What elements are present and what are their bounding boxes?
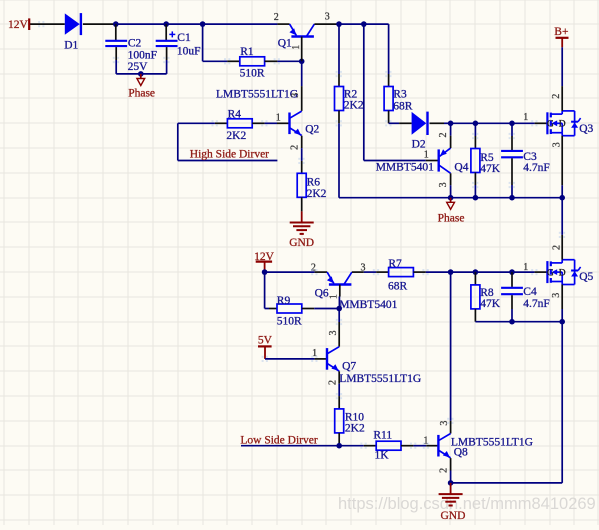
svg-text:5V: 5V [258,335,273,347]
svg-text:GND: GND [289,237,314,249]
resistor R3 [384,87,393,111]
hotspot markers at pin transitions [38,21,565,449]
svg-text:4.7nF: 4.7nF [523,298,550,310]
pin 3 label Q3 rotated [552,142,563,147]
label R2 [344,88,364,111]
wire R2 top feed [338,24,340,86]
wire top rail C2 to Q1 emitter [116,23,290,25]
wire Q4 collector down [450,173,452,197]
label LMBT5551LT1G Q7 [339,373,421,385]
wire R3 top feed [388,24,390,86]
wire R2 bottom down to Phase rail [338,111,340,198]
svg-text:LMBT5551LT1G: LMBT5551LT1G [339,373,421,385]
svg-text:10uF: 10uF [177,45,201,57]
wire 12V to Q6 emitter [265,271,328,273]
power port Phase (upper) [128,74,155,100]
capacitor C2 [105,24,127,74]
svg-text:Q3: Q3 [579,123,593,135]
node D1/C2 junction [113,21,119,27]
resistor R6 [297,173,306,197]
wire R9 to Q6 base node [302,308,339,310]
label C1 values [177,32,201,57]
node Q6 base / R9 junction [336,306,342,312]
wire Q7 emitter to R10 [338,371,340,409]
svg-text:2: 2 [290,145,301,150]
svg-text:LMBT5551LT1G: LMBT5551LT1G [451,437,533,449]
resistor R8 [471,285,480,309]
wire R5 feed [474,123,476,148]
label Q3 [579,123,593,135]
svg-text:R7: R7 [388,258,402,270]
pin 2 label Q3 rotated [551,94,562,99]
pin name G Q5 [547,269,554,279]
svg-text:2K2: 2K2 [226,130,246,142]
pin 1 label Q6 rotated [328,294,339,299]
svg-text:https://blog.csdn.net/mmm84102: https://blog.csdn.net/mmm8410269 [338,495,596,513]
wire Q8 emitter to GND rail [450,458,452,483]
power port 5V [258,335,273,359]
label Q5 [579,271,593,283]
resistor R5 [471,149,480,173]
svg-text:510R: 510R [277,316,302,328]
svg-text:4.7nF: 4.7nF [523,162,550,174]
pin 2 label Q5 rotated [552,245,563,250]
svg-text:2: 2 [311,263,316,274]
svg-text:3: 3 [438,182,449,187]
wire R8 top feed [474,272,476,285]
resistor R9 [277,304,302,313]
node 12V mid junction [262,269,268,275]
wire gate rail to Q3 [451,122,547,124]
node Q4 branch junction [361,21,367,27]
svg-text:1: 1 [523,262,528,273]
svg-text:D1: D1 [64,40,78,52]
node Q5 source bottom junction [559,319,565,325]
power port 12V (top left) [8,18,29,31]
wire right drop to GND rail [451,322,563,483]
wire R1 branch down and across [203,24,240,61]
svg-text:D: D [559,269,566,279]
pin 3 label Q4 rotated [438,182,449,187]
wire R4 to Q2 base [252,122,289,124]
label Q4 [454,162,468,174]
plus mark C1 [169,31,175,37]
wire Q6 collector to R7 [352,271,389,273]
label Q2 [305,124,319,136]
svg-text:LMBT5551LT1G: LMBT5551LT1G [216,89,298,101]
svg-text:2: 2 [327,380,338,385]
svg-text:68R: 68R [388,281,408,293]
label Q7 [342,361,356,373]
label R10 [345,412,365,435]
label R6 [307,177,327,200]
svg-text:47K: 47K [480,163,501,175]
label R11 [373,430,392,462]
svg-text:C2: C2 [128,37,142,49]
svg-text:B+: B+ [554,26,568,38]
pin 3 label Q7 rotated [328,331,339,336]
svg-text:2K2: 2K2 [307,188,327,200]
svg-text:3: 3 [290,93,301,98]
svg-text:GND: GND [441,510,466,522]
label R3 [393,88,413,112]
pin 3 label Q6 [361,263,366,274]
label R8 [480,287,501,310]
ground GND (upper) [289,211,314,249]
power port 12V (mid left) [254,251,275,272]
resistor R4 [227,119,252,128]
pin 1 label Q8 [423,436,428,447]
node R10 bottom junction [336,443,342,449]
wire Q5 source down [561,285,563,322]
transistor Q4 PNP [439,148,451,173]
wire Q5 drain up to Phase rail [561,198,563,260]
wire R1 to Q1 base node [265,60,302,62]
wire Q2 emitter to R6 [301,136,303,174]
label LMBT5551LT1G Q8 [451,437,533,449]
ground GND (bottom) [439,483,466,522]
label R4 [226,108,246,142]
svg-text:High Side Dirver: High Side Dirver [190,149,269,161]
node R5 bottom junction [473,195,479,201]
svg-text:Q4: Q4 [454,162,468,174]
wire Q4 base branch [364,24,439,160]
wire D1 cathode to node [83,23,116,25]
resistor R10 [335,409,344,433]
label R7 [388,258,408,293]
node R8 top junction [473,269,479,275]
svg-text:2: 2 [274,12,279,23]
pin 2 label Q2 rotated [290,145,301,150]
svg-text:3: 3 [328,331,339,336]
mosfet Q3 [547,111,580,136]
transistor Q7 NPN [327,347,339,371]
wire R11 to Q8 base [401,445,438,447]
svg-text:2: 2 [438,468,449,473]
svg-text:1: 1 [523,112,528,123]
svg-text:Phase: Phase [438,213,465,225]
capacitor C4 [501,272,523,322]
node Q3 source junction [559,195,565,201]
label C3 [523,151,550,174]
wire Q8 collector drop [450,272,452,433]
svg-text:D: D [559,120,566,130]
wire Q6 base down [338,285,340,309]
wire Q1 base down to Q2 collector [301,37,303,111]
svg-text:R8: R8 [480,287,494,299]
svg-text:R3: R3 [393,88,407,100]
svg-text:R9: R9 [277,295,291,307]
resistor R11 [376,441,401,450]
label C4 [523,286,550,310]
svg-text:1K: 1K [375,450,390,462]
svg-text:12V: 12V [8,19,29,31]
svg-text:R11: R11 [373,430,392,442]
transistor Q8 NPN [438,434,450,458]
node Q8 collector junction [448,269,454,275]
wire low side rail [241,445,376,447]
svg-text:R4: R4 [228,108,242,120]
transistor Q1 PNP [289,24,314,36]
label D2 [412,138,426,150]
pin name D Q5 [559,269,566,279]
wire node down to Q7 collector [338,309,340,347]
pin 1 label Q7 [312,348,317,359]
wire R8 bottom [474,309,476,322]
wire R5 bottom [474,173,476,198]
label R1 [240,46,265,79]
svg-text:Phase: Phase [128,88,155,100]
pin 3 label Q1 [325,12,330,23]
svg-text:2: 2 [552,245,563,250]
pin 2 label Q1 [274,12,279,23]
pin 3 label Q8 rotated [439,421,450,426]
svg-text:Q7: Q7 [342,361,356,373]
node C3 top junction [509,121,515,127]
pin 2 label Q6 [311,263,316,274]
svg-text:2: 2 [438,133,449,138]
pin 2 label Q7 rotated [327,380,338,385]
svg-text:R5: R5 [480,152,494,164]
node C4 bottom junction [509,319,515,325]
label Q6 [315,288,329,300]
diode D1 [65,13,81,35]
power port B+ [554,26,568,47]
power port Phase (mid) [438,198,465,225]
wire Phase rail [339,197,562,199]
node Q1 base / R1 junction [299,59,305,65]
wire Q1 collector across top [314,23,388,25]
mosfet Q5 [547,260,580,285]
svg-text:3: 3 [552,142,563,147]
svg-text:MMBT5401: MMBT5401 [339,299,397,311]
wire R3 bottom to D2 anode [389,111,412,124]
resistor R1 [240,57,265,66]
svg-text:C3: C3 [523,151,537,163]
label Q8 [454,446,468,458]
label MMBT5401 Q6 [339,299,397,311]
svg-text:1: 1 [423,436,428,447]
label R5 [480,152,501,175]
svg-text:1: 1 [276,113,281,124]
wire R7 to lower gate rail [413,271,546,273]
svg-text:2K2: 2K2 [344,99,364,111]
svg-text:R6: R6 [307,177,321,189]
label LMBT5551LT1G Q2 [216,89,298,101]
svg-text:25V: 25V [128,61,149,73]
wire 5V to Q7 base [265,358,327,360]
label D1 [64,40,78,52]
pin 3 label Q2 rotated [290,93,301,98]
wire 12V feed to D1 anode [30,23,65,25]
svg-text:Q6: Q6 [315,288,329,300]
pin 1 label Q4 [424,149,429,160]
svg-text:Low Side Dirver: Low Side Dirver [240,435,317,447]
resistor R7 [389,268,414,277]
node R5 top junction [473,121,479,127]
svg-text:2: 2 [551,94,562,99]
pin 1 label Q2 [276,113,281,124]
label Q1 [278,38,292,50]
svg-text:G: G [547,269,554,279]
net label High Side Dirver [190,149,269,161]
transistor Q2 NPN [290,111,302,135]
svg-text:1: 1 [291,45,302,50]
transistor Q6 PNP [327,272,352,284]
node C3 bottom junction [509,195,515,201]
pin 2 label Q8 rotated [438,468,449,473]
wire B+ to Q3 drain [561,47,563,111]
capacitor C3 [501,123,523,197]
pin name G Q3 [547,120,554,130]
svg-text:R1: R1 [240,46,254,58]
svg-text:2K2: 2K2 [345,423,365,435]
svg-text:Q1: Q1 [278,38,292,50]
pin 1 label Q3 [523,112,528,123]
wire R6 bottom to GND [301,197,303,211]
label C2 values [128,37,157,73]
svg-text:510R: 510R [240,68,265,80]
svg-text:G: G [547,120,554,130]
svg-text:Q2: Q2 [305,124,319,136]
wire bottom-right rail [475,321,562,323]
node R2 top junction [336,21,342,27]
wire Q4 emitter up [450,123,452,148]
pin name D Q3 [559,120,566,130]
svg-text:1: 1 [424,149,429,160]
label MMBT5401 Q4 [376,161,434,173]
node C1 top junction [163,21,169,27]
node Q4 collector junction [448,195,454,201]
pin 3 label Q5 rotated [551,293,562,298]
capacitor C1 polarized [156,24,178,74]
svg-text:3: 3 [551,293,562,298]
label R9 [277,295,302,328]
svg-text:MMBT5401: MMBT5401 [376,161,434,173]
wire cap bottom rail [116,73,166,75]
node Phase cap junction [138,71,144,77]
pin 2 label Q4 rotated [438,133,449,138]
svg-text:1: 1 [328,294,339,299]
node C4 top junction [509,269,515,275]
svg-text:3: 3 [325,12,330,23]
wire R4 left loop and High Side net [178,123,278,160]
node Q4 emitter junction [448,121,454,127]
wire 12V mid down to R9 [265,272,277,308]
svg-text:C1: C1 [177,32,191,44]
svg-text:68R: 68R [393,100,413,112]
node GND rail junction [448,480,454,486]
wire Q3 source down to Phase rail [561,136,563,198]
svg-text:100nF: 100nF [128,49,157,61]
svg-text:47K: 47K [480,298,501,310]
pin 1 label Q5 [523,262,528,273]
resistor R2 [335,87,344,111]
node R1 branch junction [200,21,206,27]
pin 1 label Q1 rotated [291,45,302,50]
svg-text:Q5: Q5 [579,271,593,283]
wire D2 cathode to gate rail [430,122,451,124]
svg-text:C4: C4 [523,286,537,298]
diode D2 [412,112,428,135]
net label Low Side Dirver [240,435,317,447]
wire R10 bottom to low side rail [338,433,340,446]
